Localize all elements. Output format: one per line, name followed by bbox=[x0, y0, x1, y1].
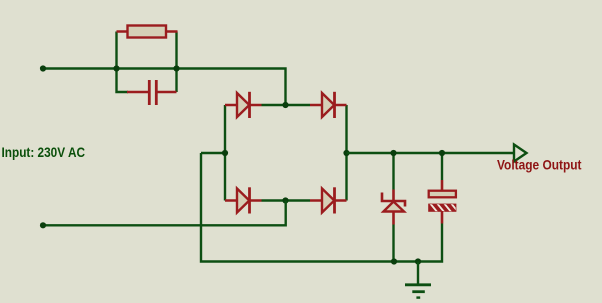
wire output bbox=[347, 152, 515, 154]
node cap top bbox=[439, 150, 445, 156]
terminal neutral input bbox=[40, 222, 46, 228]
diode D1 top-left bbox=[225, 92, 262, 118]
node zener bottom bbox=[391, 258, 397, 264]
node bridge left bbox=[222, 150, 228, 156]
wire bottom input bbox=[43, 201, 286, 226]
diode D3 bottom-left bbox=[225, 187, 262, 213]
wire bridge right vertical bbox=[345, 105, 347, 201]
wire bridge bottom middle bbox=[262, 199, 311, 201]
wire top input to bridge top bbox=[43, 69, 286, 106]
capacitor C2 electrolytic bbox=[429, 153, 459, 224]
node bridge right bbox=[343, 150, 349, 156]
diode D2 top-right bbox=[310, 92, 347, 118]
diode D4 bottom-right bbox=[310, 187, 347, 213]
node ground junction bbox=[415, 258, 421, 264]
capacitor C1 bbox=[127, 80, 177, 105]
svg-text:Voltage Output: Voltage Output bbox=[497, 157, 582, 173]
wire bridge left vertical bbox=[224, 105, 226, 201]
wire bridge left stub bbox=[201, 152, 225, 154]
ground bbox=[405, 262, 431, 298]
wire RC right vertical bbox=[175, 32, 177, 93]
svg-text:Input: 230V AC: Input: 230V AC bbox=[2, 144, 86, 160]
node zener top bbox=[390, 150, 396, 156]
output arrow bbox=[514, 145, 527, 162]
resistor R1 bbox=[117, 26, 178, 38]
wire RC left vertical bbox=[117, 32, 129, 93]
wire ground rail bbox=[201, 153, 442, 262]
node RC right bbox=[173, 65, 179, 71]
node bridge bottom bbox=[282, 197, 288, 203]
wire bridge top middle bbox=[262, 104, 311, 106]
node bridge top bbox=[282, 102, 288, 108]
node RC left bbox=[113, 65, 119, 71]
zener D5 bbox=[382, 153, 405, 262]
terminal live input bbox=[40, 65, 46, 71]
